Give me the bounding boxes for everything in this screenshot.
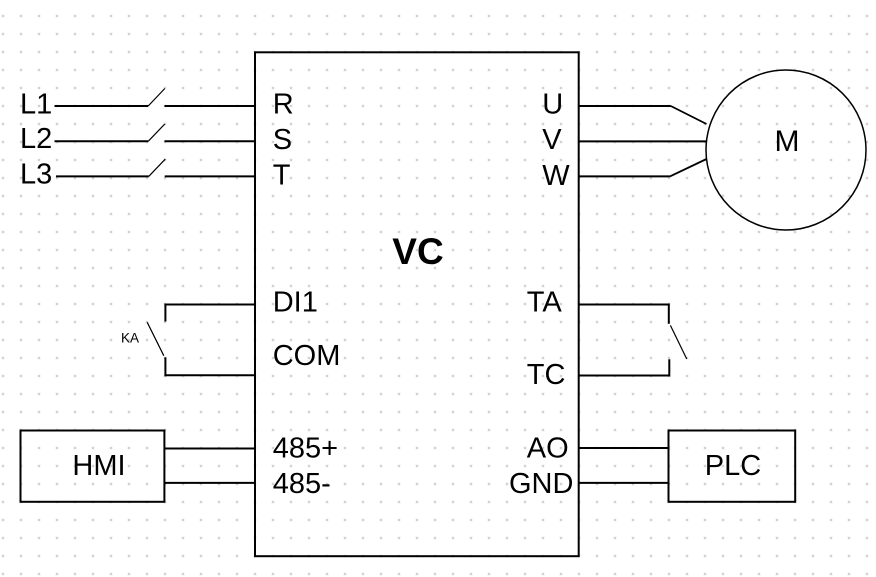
svg-text:485+: 485+ [273,432,338,464]
svg-text:VC: VC [392,231,443,272]
wire terminal W to motor [579,175,670,177]
wire DI1 to KA contact [165,304,256,306]
svg-text:R: R [273,88,294,120]
relay contact bottom lead [668,359,670,376]
breaker pole 1 blade [148,89,165,107]
svg-text:S: S [273,124,292,156]
KA contact top lead [164,304,166,322]
svg-text:V: V [542,124,562,156]
wire W diagonal to motor [670,159,707,176]
motor M circle [706,70,866,230]
wire breaker pole 1 to terminal R [165,105,256,107]
wire L3 to breaker pole 3 [56,175,149,177]
KA contact blade [147,322,164,355]
svg-text:AO: AO [527,432,569,464]
svg-text:TA: TA [527,287,563,319]
svg-text:PLC: PLC [705,450,761,482]
svg-text:HMI: HMI [72,450,125,482]
wire HMI to 485- [164,482,256,484]
svg-text:L2: L2 [20,123,52,155]
HMI box [21,431,165,502]
wire breaker pole 3 to terminal T [165,175,255,177]
svg-text:W: W [542,160,570,192]
wire GND to PLC [579,482,669,484]
breaker pole 2 blade [148,124,165,141]
wire L1 to breaker pole 1 [55,105,149,107]
wire AO to PLC [579,447,669,449]
svg-text:U: U [542,89,563,121]
svg-text:COM: COM [273,340,341,372]
breaker pole 3 blade [149,159,166,176]
inverter VC box [255,52,579,556]
svg-text:T: T [273,160,291,192]
relay contact blade [670,325,686,359]
wire terminal U to motor [579,105,671,107]
wire HMI to 485+ [164,448,256,450]
PLC box [669,431,796,502]
svg-text:TC: TC [527,359,566,391]
wire L2 to breaker pole 2 [55,140,149,142]
wire U diagonal to motor [671,106,707,124]
relay contact top lead [668,304,670,324]
wire TC to relay contact [579,375,670,377]
svg-text:485-: 485- [273,468,331,500]
wire TA to relay contact [579,304,669,306]
wire COM to KA contact [165,374,256,376]
svg-text:DI1: DI1 [273,287,318,319]
svg-text:GND: GND [509,468,573,500]
svg-text:L3: L3 [20,158,52,190]
wire breaker pole 2 to terminal S [165,140,256,142]
wire terminal V to motor [579,140,707,142]
svg-text:KA: KA [121,330,139,345]
svg-text:L1: L1 [20,89,52,121]
svg-text:M: M [775,125,800,158]
KA contact bottom lead [164,357,166,376]
